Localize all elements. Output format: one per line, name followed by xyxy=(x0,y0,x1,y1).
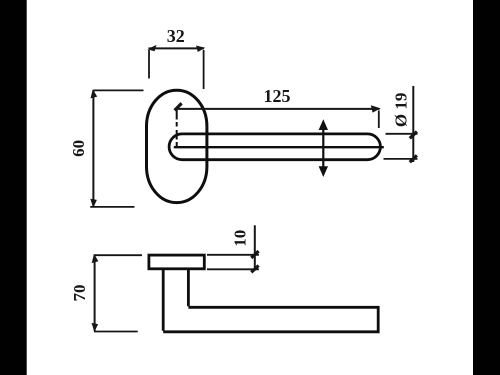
svg-text:60: 60 xyxy=(69,140,88,157)
motion arrow: down head xyxy=(319,166,328,177)
dimension 60: dim line xyxy=(92,90,94,207)
motion arrow: up head xyxy=(319,119,328,130)
dimension 70: top extension line xyxy=(94,254,142,256)
svg-text:10: 10 xyxy=(230,230,249,247)
dimension 60: bottom extension line xyxy=(90,206,134,208)
dimension 60: top arrow xyxy=(91,89,98,98)
dimension D19: dim line xyxy=(412,86,414,162)
dimension 125: right arrow xyxy=(371,105,381,112)
dimension 60: top extension line xyxy=(93,89,143,91)
dimension 70: bottom extension line xyxy=(94,331,138,333)
dimension 10: bottom extension line xyxy=(207,268,259,270)
svg-text:125: 125 xyxy=(264,86,291,106)
rosette oval (top view) xyxy=(147,90,207,202)
dimension 10: dim line xyxy=(254,225,256,270)
dimension 10: top extension line xyxy=(207,254,259,256)
dimension D19: bottom tick xyxy=(410,155,417,162)
dimension 70: bottom arrow xyxy=(92,323,99,332)
dimension 32: left arrow xyxy=(147,45,156,51)
dimension D19: top tick xyxy=(410,132,417,139)
dimension 125: dim line xyxy=(177,108,380,110)
right pillarbox bar xyxy=(473,0,500,375)
motion arrow (up/down) shaft xyxy=(322,128,324,170)
dimension 70: dim line xyxy=(94,255,96,331)
dimension 32: right arrow xyxy=(196,46,205,53)
dimension 32: left extension line xyxy=(148,50,150,79)
dimension 10: bottom tick xyxy=(251,266,258,273)
left pillarbox bar xyxy=(0,0,27,375)
svg-text:70: 70 xyxy=(70,285,89,302)
dimension 70: top arrow xyxy=(92,254,99,263)
rosette cap (side view) xyxy=(149,255,204,269)
svg-text:32: 32 xyxy=(167,26,185,46)
dimension 32: right extension line xyxy=(203,50,205,89)
dimension 125: right extension line xyxy=(378,111,380,129)
dimension 60: bottom arrow xyxy=(90,199,97,208)
dimension 32: dim line xyxy=(149,47,205,49)
dimension 10: top tick xyxy=(251,251,258,258)
svg-text:Ø 19: Ø 19 xyxy=(392,93,411,127)
lever handle capsule (top view) xyxy=(169,134,380,160)
dimension 125: left end mark xyxy=(175,103,182,110)
dimension D19: top extension line xyxy=(386,133,418,135)
centerline (dash-dot) xyxy=(176,110,178,148)
lever mid line xyxy=(174,146,384,148)
lever profile (side view) xyxy=(163,269,378,332)
dimension D19: bottom extension line xyxy=(384,158,418,160)
